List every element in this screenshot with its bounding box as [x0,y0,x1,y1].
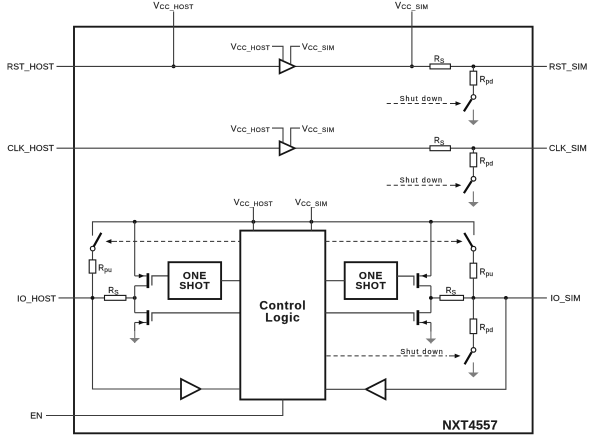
wire U2 VCC_HOST elbow [272,128,283,142]
svg-text:IO_HOST: IO_HOST [17,293,56,303]
wire VCC_HOST supply drop [173,12,175,67]
wire shutdown dashed control (CLK) [387,184,448,186]
transistor Q3 (sim, upper) [419,275,431,277]
resistor Rpu (host) [89,260,96,273]
outer IC boundary box [74,27,533,434]
junction top rail / right pass-gate [429,220,433,224]
resistor Rpd (CLK) [470,153,477,167]
svg-text:EN: EN [30,411,42,421]
ground (Q4 source) [430,332,432,344]
wire U4 output to control logic [325,388,366,390]
buffer U2 CLK level translator [280,141,295,155]
wire Q3 gate to ONE SHOT (sim) [397,276,414,285]
wire U3 output to control logic [201,388,241,390]
wire RST row line [57,65,547,67]
wire left pass-gate column (top rail to gate arrow) [134,222,136,276]
node CLK_SIM junction [472,146,476,150]
buffer U1 RST level translator [280,60,295,74]
svg-text:NXT4557: NXT4557 [442,418,497,433]
svg-text:RST_HOST: RST_HOST [7,61,55,71]
resistor Rpd (IO_SIM) [470,319,477,334]
wire shutdown dashed control (RST) [387,103,448,105]
buffer U4 EN (sim side) [366,379,386,399]
wire IO section top rail [93,222,474,236]
wire Q2 gate to Control Logic [152,313,240,321]
wire CLK row line [57,147,547,149]
wire IO_SIM line [431,297,547,299]
junction top rail / left pass-gate [133,220,137,224]
switch S1 shutdown pull-down (RST) [471,95,476,100]
svg-text:Shut down: Shut down [400,176,443,185]
wire shutdown dashed control (IO) [327,355,448,357]
wire Rpd bottom lead (IO_SIM) [472,334,474,348]
svg-text:Shut down: Shut down [400,94,443,103]
junction IO_SIM / pass-gate column [429,296,433,300]
junction IO_SIM / Rpu-Rpd branch [472,296,476,300]
switch S3 Rpu disconnect (host side) [94,233,102,247]
wire switch to Rpu (sim) [472,251,474,263]
svg-text:RST_SIM: RST_SIM [549,61,587,71]
svg-text:CLK_HOST: CLK_HOST [7,143,54,153]
wire Rpu to IO_SIM line [472,278,474,298]
wire EN input [46,400,283,416]
wire Q2 source to ground [134,323,136,332]
switch S4 Rpu disconnect (sim side) [464,233,472,247]
wire right pass-gate column (top rail to gate arrow) [430,222,432,276]
junction VCC_HOST on RST line [172,65,176,69]
transistor Q1 (host, upper) [135,275,147,277]
svg-text:SHOT: SHOT [179,281,210,292]
wire Rpd top lead (RST) [472,66,474,71]
wire one-shot to control logic (host) [221,280,240,282]
svg-text:IO_SIM: IO_SIM [551,293,581,303]
ground (Q2 source) [134,331,136,343]
node RST_SIM junction [472,65,476,69]
switch S2 shutdown pull-down (CLK) [471,177,476,182]
svg-text:Logic: Logic [265,310,300,324]
resistor RS (sim) [440,295,464,300]
wire VCC_HOST drop to control logic [252,207,254,231]
resistor RS (RST) [430,64,450,69]
junction IO_SIM / EN feedback branch [504,296,508,300]
junction IO_HOST / Rpu branch [91,296,95,300]
wire U2 VCC_SIM elbow [291,128,300,146]
junction VCC_SIM on RST line [410,65,414,69]
svg-text:Shut down: Shut down [400,347,443,356]
junction IO_HOST / pass-gate column [133,296,137,300]
junction top rail / VCC_HOST drop [252,220,256,224]
control logic block [240,231,325,400]
transistor Q4 (sim, lower) [430,298,432,313]
svg-text:CLK_SIM: CLK_SIM [549,143,587,153]
wire shutdown dashed (host side, arrow left) [106,239,112,244]
wire VCC_SIM drop to control logic [310,207,312,231]
wire control logic to one-shot (sim) [325,280,344,282]
svg-text:SHOT: SHOT [355,281,386,292]
ground (IO pull-down) [472,362,474,376]
resistor Rpu (sim) [470,263,477,278]
wire Rpd top lead (CLK) [472,148,474,153]
wire VCC_SIM supply drop [411,12,413,67]
one-shot block (sim side) [345,262,397,299]
wire Rpd bottom lead (CLK) [472,167,474,177]
wire U1 VCC_HOST elbow [272,46,283,60]
wire Q4 source to ground [430,323,432,332]
wire U1 VCC_SIM elbow [291,46,300,64]
wire shutdown dashed (sim side, arrow right) [325,240,450,242]
wire Rpd top lead (IO_SIM) [472,298,474,319]
one-shot block (host side) [169,262,222,299]
junction top rail / VCC_SIM drop [310,220,314,224]
resistor Rpd (RST) [470,71,477,85]
transistor Q2 (host, lower) [134,298,136,313]
wire IO_HOST line [59,297,135,299]
wire Rpd bottom lead (RST) [472,85,474,95]
wire Q1 gate to ONE SHOT [152,276,169,286]
buffer U3 EN (host side) [181,379,201,399]
switch S5 shutdown pull-down (IO_SIM) [471,348,476,353]
wire EN feedback (sim side) [386,298,506,389]
resistor RS (host) [105,295,126,300]
ground (RST pull-down) [472,110,474,125]
wire Q4 gate to Control Logic [325,313,414,321]
resistor RS (CLK) [430,146,450,151]
wire switch to Rpu (host) [92,251,94,260]
wire Rpu to IO_HOST line and down to EN buffer [93,273,182,389]
ground (CLK pull-down) [472,191,474,206]
